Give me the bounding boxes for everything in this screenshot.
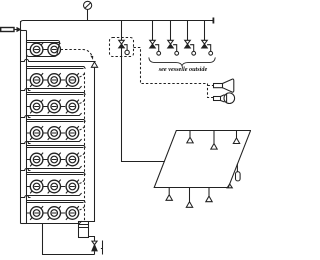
check valve V8 <box>92 241 97 254</box>
nozzle N7 <box>227 184 232 188</box>
valve V0 <box>119 40 130 54</box>
wire A-B connector <box>21 30 27 32</box>
block row4 <box>27 120 86 142</box>
valve box dashed enclosure <box>110 38 134 57</box>
block row7 <box>27 201 86 224</box>
wire left vertical B <box>26 31 28 224</box>
component inlet box <box>1 28 14 32</box>
block row6 <box>27 173 86 196</box>
node bottom end tick <box>101 241 103 255</box>
nozzle N3 <box>233 131 239 144</box>
wire alarm dashed line <box>134 48 214 98</box>
block row1 <box>27 41 61 57</box>
wire dashed drain line <box>84 73 86 222</box>
wire collector line <box>21 59 96 61</box>
valve V4 <box>202 21 213 56</box>
node collector arrow <box>91 62 97 67</box>
wire inlet arrow <box>14 29 17 31</box>
brace <box>149 57 216 65</box>
block row2 <box>27 67 86 89</box>
block row5 <box>27 146 86 169</box>
wire left vertical A <box>20 21 22 224</box>
node header end tick <box>212 18 214 24</box>
wire right vertical R <box>89 67 95 221</box>
valve V2 <box>168 21 179 56</box>
wire bottom return loop <box>43 224 95 255</box>
wire row1 dashed vent <box>61 50 93 58</box>
label caption <box>146 66 220 73</box>
component beacon L1 <box>214 93 235 104</box>
component filter F1 <box>79 222 89 238</box>
nozzle N4 <box>166 188 172 201</box>
nozzle N6 <box>206 188 212 202</box>
wire filter outlet <box>89 237 95 241</box>
wire main drop <box>122 21 165 162</box>
gauge PI1 <box>84 1 92 20</box>
valve V3 <box>185 21 196 56</box>
fitting level gauge <box>236 164 238 172</box>
nozzle N1 <box>187 131 193 143</box>
component horn H1 <box>214 79 234 92</box>
nozzle N5 <box>186 188 192 208</box>
nozzle N2 <box>211 131 217 150</box>
wire row stubs <box>21 89 31 91</box>
wire main header line <box>21 21 214 26</box>
tank T1 <box>154 131 250 208</box>
wire row7 bottom extension <box>21 223 27 225</box>
block row3 <box>27 93 86 116</box>
valve V1 <box>150 21 161 56</box>
